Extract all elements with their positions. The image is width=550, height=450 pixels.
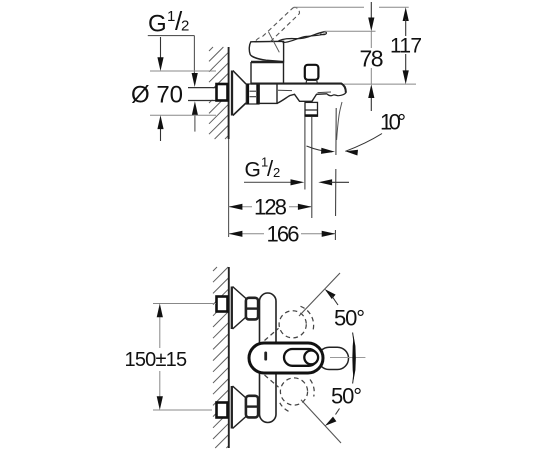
centerline inside tip <box>330 357 365 359</box>
handle ghost top (rotated +50°, dashed) <box>265 306 314 340</box>
handle pivot circle <box>304 351 318 365</box>
lever raised position (dashed) <box>256 7 300 41</box>
G 1/2 label (top, inlet) <box>148 6 198 132</box>
aerator / outlet <box>305 102 318 116</box>
handle ghost bottom (rotated -50°, dashed) <box>265 375 315 411</box>
faucet body (plan, vertical capsule) <box>260 293 277 423</box>
svg-text:2: 2 <box>273 165 280 180</box>
cartridge escutcheon box <box>251 62 284 84</box>
wall face line (top view) <box>228 47 230 139</box>
escutcheon (top, plan) <box>232 287 258 330</box>
dimension 117 <box>390 7 422 84</box>
outlet axis lines (water stream) <box>304 117 306 190</box>
supply pipe stub <box>188 88 216 100</box>
body underside contour <box>277 94 327 104</box>
handle centerline <box>324 357 365 359</box>
mounting square (top) <box>217 297 228 312</box>
svg-text:128: 128 <box>254 195 287 220</box>
10° angle arc with arrow <box>307 146 333 152</box>
dimension 128 <box>229 195 312 220</box>
dimension 150±15 <box>125 304 217 411</box>
dimension 166 <box>229 222 336 247</box>
indicator tick <box>264 352 267 361</box>
handle main capsule (thick) <box>249 343 323 373</box>
G 1/2 label (bottom, shower outlet) <box>244 155 349 186</box>
svg-text:2: 2 <box>181 18 189 35</box>
escutcheon (bottom, plan) <box>232 386 258 429</box>
check valve block <box>259 83 277 103</box>
svg-text:150±15: 150±15 <box>125 349 187 371</box>
rotation double-arrow arc <box>353 333 355 384</box>
reference line L2 (top of closed lever) <box>325 30 376 32</box>
hand shower hose squiggle <box>337 102 342 140</box>
svg-text:50°: 50° <box>334 306 365 331</box>
union nut square (top view) <box>217 84 228 101</box>
body inner lines <box>278 89 292 91</box>
svg-text:166: 166 <box>267 222 300 247</box>
svg-text:117: 117 <box>390 35 422 58</box>
svg-text:10°: 10° <box>380 110 406 135</box>
escutcheon cone (top view) <box>232 71 246 116</box>
svg-text:G: G <box>148 11 167 38</box>
diverter knob <box>305 65 319 80</box>
wall hatching (top view) <box>209 47 229 139</box>
svg-text:G: G <box>245 159 261 182</box>
50° ray (bottom) <box>301 400 341 443</box>
50° leader (top) <box>325 289 336 299</box>
wall face line (bottom view) <box>228 267 230 448</box>
10° leader <box>345 134 382 152</box>
svg-text:Ø 70: Ø 70 <box>131 82 183 109</box>
svg-text:50°: 50° <box>331 384 362 409</box>
mounting square (bottom) <box>217 403 228 418</box>
handle loop slot <box>284 349 317 366</box>
50° ray (top) <box>299 273 340 316</box>
dimension 78 <box>360 2 384 111</box>
reference line L1 (top of raised lever) <box>294 6 364 8</box>
lever handle (closed position) <box>249 32 326 62</box>
reference line L3 (outlet plane) <box>344 83 416 85</box>
Ø 70 dimension <box>131 37 216 141</box>
166 extension / 10° reference line (dashed vertical) <box>334 108 337 240</box>
union collar nut <box>246 84 259 104</box>
svg-text:78: 78 <box>360 46 384 72</box>
wall hatching (bottom view) <box>213 267 229 448</box>
handle tip thin capsule <box>318 347 349 369</box>
faucet body top edge <box>251 84 346 93</box>
